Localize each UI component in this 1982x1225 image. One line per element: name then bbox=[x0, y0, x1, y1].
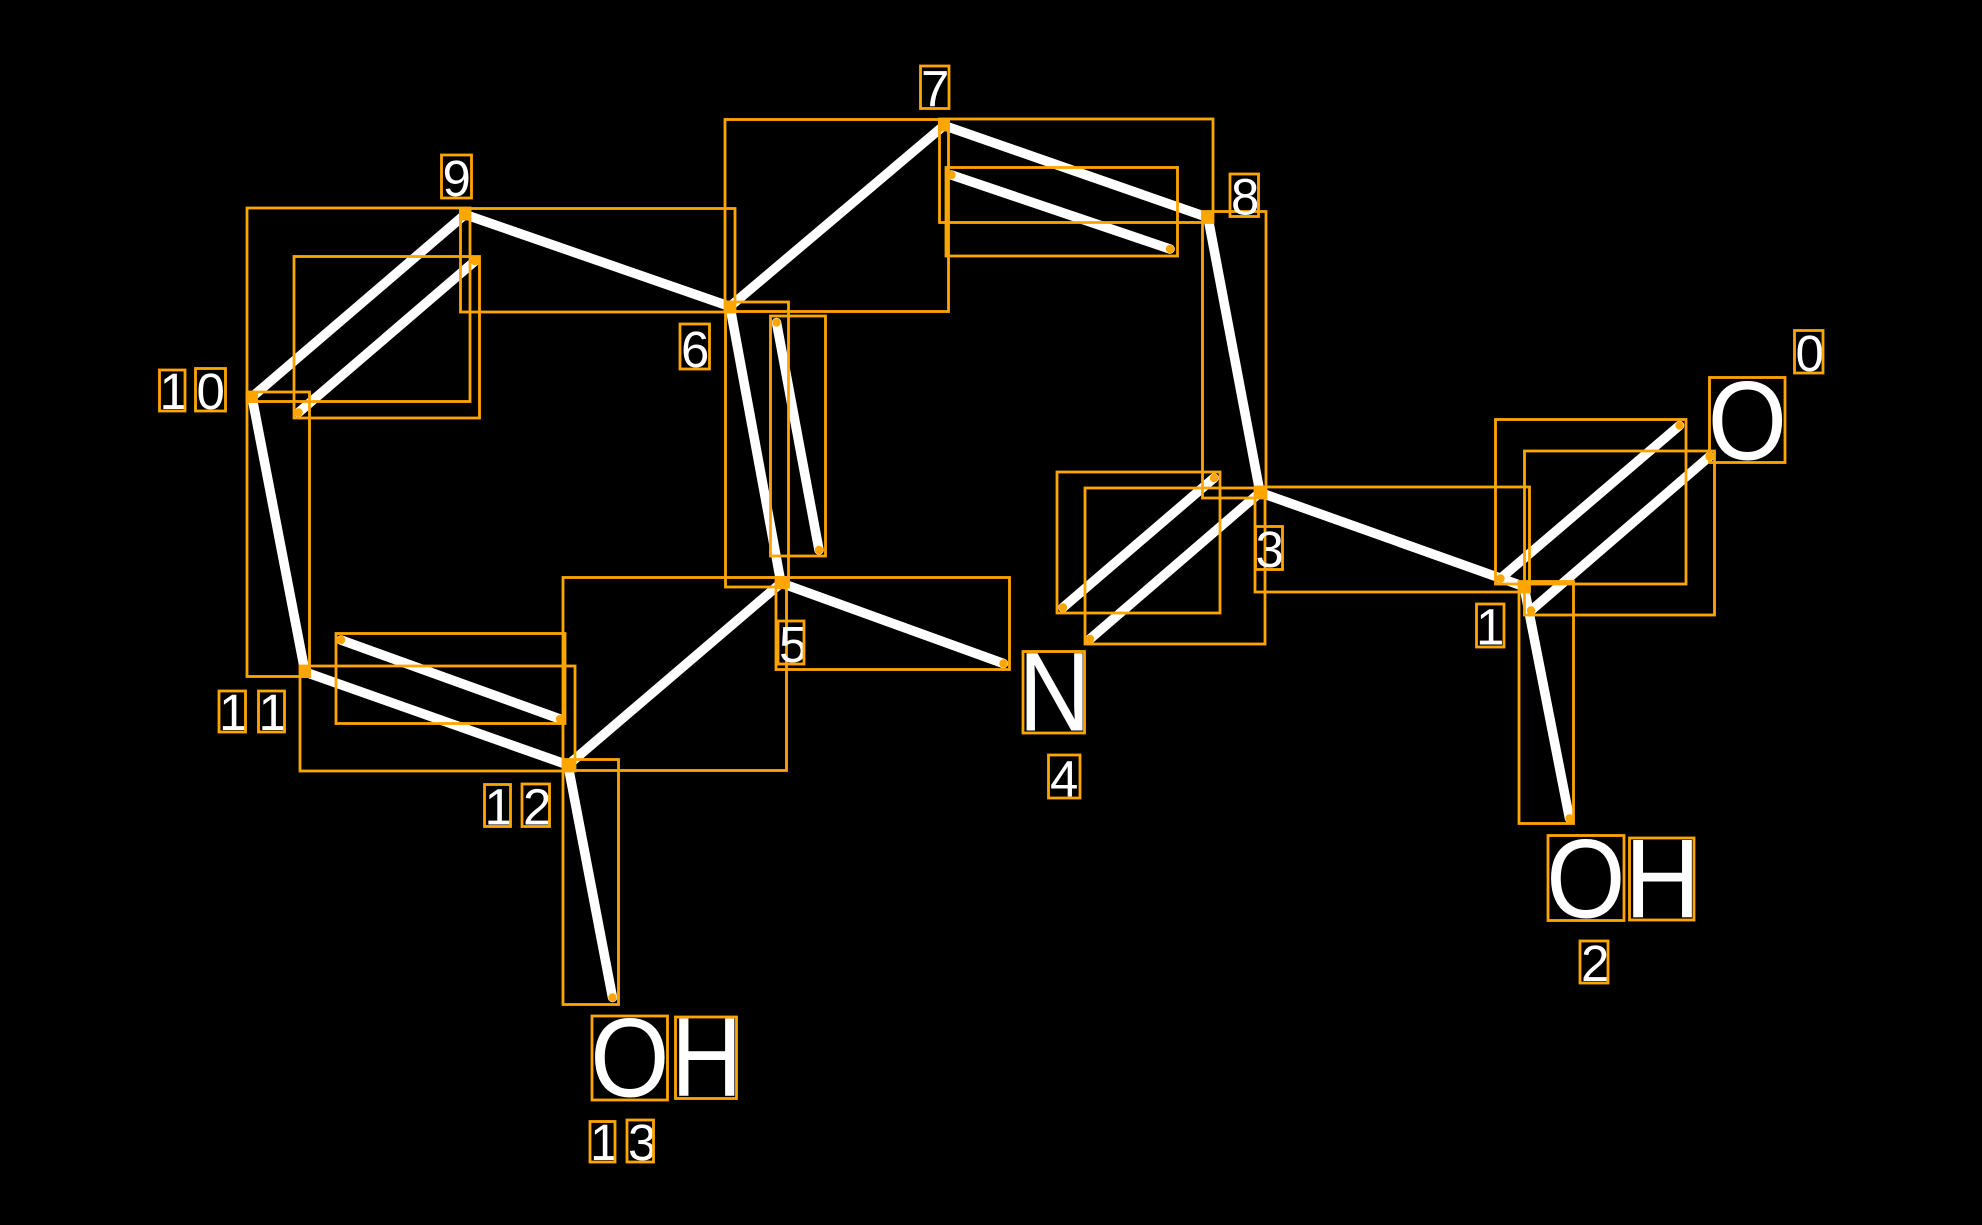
bbox bond 3-1 bbox=[1255, 487, 1530, 592]
bbox index 3 bbox=[1256, 527, 1283, 570]
bbox index 9 bbox=[442, 155, 472, 198]
bond 3-1 bbox=[1260, 493, 1524, 587]
bbox bond 7-8 main bbox=[940, 119, 1214, 223]
atom C7 marker bbox=[938, 120, 950, 132]
bbox index 13 digit1 bbox=[590, 1122, 615, 1163]
bond 1-2 (to OH) bbox=[1524, 587, 1570, 819]
bond 6-9 bbox=[465, 215, 730, 307]
bond 9-10 main line bbox=[252, 215, 465, 398]
endpoint dot 5-6 inner a bbox=[772, 318, 780, 326]
bbox index 12 digit2 bbox=[522, 784, 550, 827]
bond 11-12 inner line bbox=[341, 640, 560, 719]
bbox index 4 bbox=[1049, 755, 1081, 798]
bond 9-10 inner line bbox=[299, 261, 476, 413]
endpoint dot 1-O0 lower b bbox=[1705, 452, 1713, 460]
atom C12 marker bbox=[562, 759, 574, 771]
atom C8 marker bbox=[1202, 212, 1214, 224]
atom C5 marker bbox=[775, 577, 787, 589]
endpoint dot 3-N4 main at N bbox=[1086, 635, 1094, 643]
bbox index 11 digit1b bbox=[259, 691, 285, 732]
bbox bond 10-11 bbox=[247, 392, 310, 677]
bond 6-7 bbox=[730, 126, 944, 307]
bond 3-N4 main line bbox=[1090, 493, 1260, 640]
bbox bond 6-7 bbox=[725, 120, 949, 312]
bond 12-5 bbox=[568, 583, 781, 765]
bond 5-6 inner line bbox=[777, 323, 820, 551]
bbox bond 1-O0 lower bbox=[1525, 451, 1715, 615]
bbox index 7 bbox=[921, 66, 950, 109]
endpoint dot 1-O0 upper a bbox=[1496, 574, 1504, 582]
bbox atom OH2 H glyph bbox=[1630, 838, 1695, 920]
endpoint dot 5-N4 at N bbox=[999, 659, 1007, 667]
bbox bond 3-N4 main bbox=[1085, 488, 1265, 644]
endpoint dot 9-10 inner a bbox=[471, 257, 479, 265]
endpoint dot 11-12 inner a bbox=[337, 636, 345, 644]
bbox index 10 digit1 bbox=[160, 370, 186, 411]
atom C10 marker bbox=[246, 391, 258, 403]
bbox atom N4 label bbox=[1023, 652, 1085, 734]
bond 8-3 bbox=[1208, 218, 1260, 493]
atom C1 marker bbox=[1518, 581, 1530, 593]
bbox index 6 bbox=[680, 324, 710, 369]
endpoint dot 12-13 at OH bbox=[608, 993, 616, 1001]
bbox bond 9-10 main bbox=[247, 208, 470, 402]
bond 5-N4 bbox=[781, 583, 1004, 664]
bbox index 1 bbox=[1477, 604, 1505, 647]
svg-text:N: N bbox=[1018, 629, 1090, 754]
bbox index 11 digit1a bbox=[219, 691, 246, 732]
bbox index 8 bbox=[1230, 174, 1259, 217]
endpoint dot 11-12 inner b bbox=[556, 715, 564, 723]
bbox bond 1-O0 upper bbox=[1496, 420, 1687, 585]
bbox atom OH13 H glyph bbox=[676, 1017, 737, 1099]
bbox bond 12-5 bbox=[563, 578, 787, 771]
endpoint dot 1-2 at OH bbox=[1565, 814, 1573, 822]
endpoint dot 3-N4 inner b bbox=[1059, 603, 1067, 611]
svg-text:H: H bbox=[671, 995, 742, 1120]
bbox bond 12-13 bbox=[563, 760, 619, 1005]
endpoint dot 3-N4 inner a bbox=[1210, 474, 1218, 482]
svg-text:H: H bbox=[1625, 816, 1701, 941]
bbox atom O0 label bbox=[1710, 378, 1786, 463]
atom C6 marker bbox=[724, 301, 736, 313]
bbox index 13 digit3 bbox=[627, 1120, 654, 1162]
atom C3 marker bbox=[1254, 487, 1266, 499]
bbox index 0 bbox=[1795, 331, 1824, 374]
endpoint dot 5-6 inner b bbox=[815, 546, 823, 554]
bbox index 12 digit1 bbox=[485, 785, 511, 827]
bbox bond 9-10 inner bbox=[294, 257, 480, 419]
atom C9 marker bbox=[459, 209, 471, 221]
bond 7-8 main line bbox=[944, 126, 1208, 218]
bond 1-O0 lower line bbox=[1531, 457, 1710, 611]
bond 10-11 bbox=[252, 397, 305, 672]
bbox bond 11-12 main bbox=[300, 666, 575, 771]
bond 3-N4 inner line bbox=[1063, 478, 1214, 608]
bond 1-O0 upper line bbox=[1501, 426, 1680, 579]
bbox atom OH2 O glyph bbox=[1548, 836, 1624, 921]
endpoint dot 1-O0 upper b bbox=[1675, 421, 1683, 429]
bbox bond 5-N4 bbox=[776, 578, 1010, 670]
bbox index 5 bbox=[778, 621, 804, 664]
endpoint dot 1-O0 lower a bbox=[1527, 606, 1535, 614]
bbox bond 3-N4 inner bbox=[1057, 472, 1220, 613]
bond 5-6 main line bbox=[730, 307, 781, 584]
bbox index 2 bbox=[1580, 941, 1608, 983]
bbox bond 5-6 inner bbox=[771, 316, 826, 556]
bbox bond 5-6 main bbox=[726, 302, 789, 587]
bond 7-8 inner line bbox=[952, 175, 1171, 249]
bbox bond 8-3 bbox=[1203, 212, 1267, 499]
atom C11 marker bbox=[299, 666, 311, 678]
endpoint dot 7-8 inner b bbox=[1166, 245, 1174, 253]
bbox bond 6-9 bbox=[461, 209, 736, 313]
bond 12-13 (to OH) bbox=[568, 765, 613, 998]
bond 11-12 main line bbox=[305, 672, 568, 765]
svg-text:O: O bbox=[590, 995, 669, 1121]
endpoint dot 7-8 inner a bbox=[947, 171, 955, 179]
bbox index 10 digit0 bbox=[196, 369, 226, 412]
bbox bond 1-2 bbox=[1519, 582, 1574, 824]
bbox atom OH13 O glyph bbox=[592, 1016, 668, 1100]
bbox bond 7-8 inner bbox=[946, 168, 1178, 257]
endpoint dot 9-10 inner b bbox=[294, 408, 302, 416]
bbox bond 11-12 inner bbox=[336, 634, 565, 724]
